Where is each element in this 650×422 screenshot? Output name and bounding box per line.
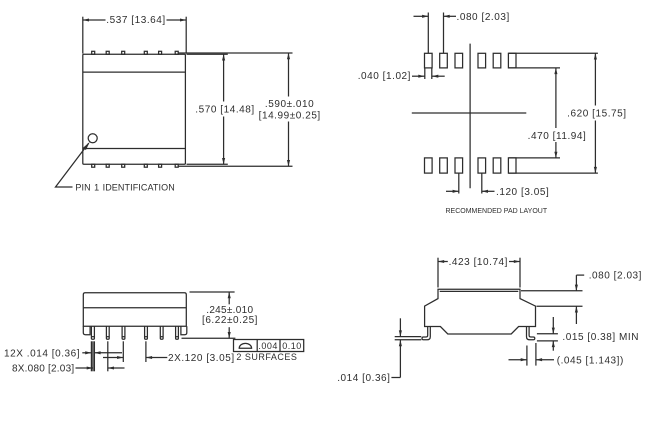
svg-text:.080 [2.03]: .080 [2.03] xyxy=(589,271,642,282)
svg-text:RECOMMENDED PAD LAYOUT: RECOMMENDED PAD LAYOUT xyxy=(445,208,547,215)
svg-text:.423 [10.74]: .423 [10.74] xyxy=(449,257,508,268)
svg-text:2 SURFACES: 2 SURFACES xyxy=(236,352,297,362)
svg-text:.080 [2.03]: .080 [2.03] xyxy=(457,12,510,23)
svg-text:(.045 [1.143]): (.045 [1.143]) xyxy=(557,355,624,366)
svg-text:.014 [0.36]: .014 [0.36] xyxy=(337,373,390,384)
svg-text:.004: .004 xyxy=(258,341,278,351)
svg-text:.590±.010: .590±.010 xyxy=(265,99,314,110)
svg-text:.570 [14.48]: .570 [14.48] xyxy=(195,105,254,116)
svg-text:.120 [3.05]: .120 [3.05] xyxy=(496,187,549,198)
svg-text:.040 [1.02]: .040 [1.02] xyxy=(358,71,411,82)
svg-text:.537 [13.64]: .537 [13.64] xyxy=(106,15,165,26)
svg-text:.620 [15.75]: .620 [15.75] xyxy=(567,109,626,120)
svg-text:.470 [11.94]: .470 [11.94] xyxy=(528,131,587,142)
svg-text:[6.22±0.25]: [6.22±0.25] xyxy=(202,315,258,326)
svg-text:8X.080 [2.03]: 8X.080 [2.03] xyxy=(12,364,74,375)
svg-text:12X .014 [0.36]: 12X .014 [0.36] xyxy=(4,348,80,359)
svg-text:.015 [0.38] MIN: .015 [0.38] MIN xyxy=(562,332,639,343)
svg-text:PIN 1 IDENTIFICATION: PIN 1 IDENTIFICATION xyxy=(75,183,174,193)
svg-text:0.10: 0.10 xyxy=(282,341,302,351)
svg-text:2X.120 [3.05]: 2X.120 [3.05] xyxy=(168,353,235,364)
svg-text:[14.99±0.25]: [14.99±0.25] xyxy=(259,111,321,122)
